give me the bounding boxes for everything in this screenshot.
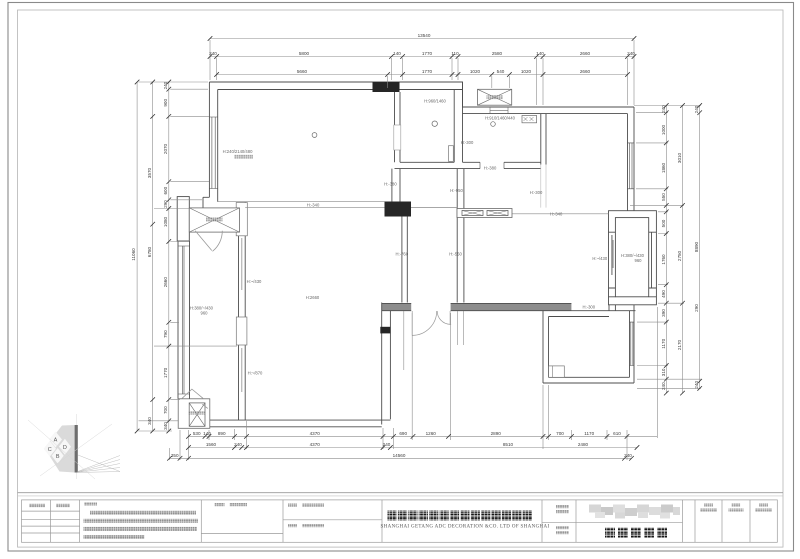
wall bottom of bathroom+kitchen (395, 162, 542, 168)
label kitchen door (484, 166, 497, 171)
dim left inner labels (163, 81, 168, 430)
svg-text:1760: 1760 (661, 254, 666, 265)
left pilaster (177, 197, 189, 241)
svg-text:2580: 2580 (492, 51, 503, 56)
platform kitchen-top label (487, 95, 504, 99)
svg-text:H:-380: H:-380 (384, 182, 397, 187)
door entrance leaf 2 (437, 311, 451, 324)
dim right mid ticks (680, 103, 685, 395)
wall top-left inner (218, 89, 463, 91)
svg-text:2660: 2660 (163, 277, 168, 288)
dim right inner ticks (664, 103, 669, 395)
svg-text:1020: 1020 (521, 69, 532, 74)
dim bottom row2 line (189, 447, 638, 449)
radiator shelf (457, 209, 512, 218)
beam line central (411, 208, 609, 214)
dim top row2 line (217, 74, 628, 76)
dim top total label (418, 33, 431, 38)
title block cells box (22, 500, 778, 542)
svg-text:H:-300: H:-300 (530, 190, 543, 195)
label kitchen-wall beam (450, 188, 463, 193)
label beam right (550, 211, 563, 216)
svg-text:6780: 6780 (147, 246, 152, 257)
dim left extension lines (139, 82, 238, 431)
svg-text:H:-340: H:-340 (307, 203, 320, 208)
label kitchen beam (461, 140, 474, 145)
wall bottom-left room bottom (210, 420, 391, 427)
svg-text:690: 690 (399, 431, 407, 436)
bay window corner blocks (609, 232, 657, 311)
svg-text:110: 110 (451, 51, 459, 56)
svg-text:240: 240 (694, 105, 699, 113)
svg-text:1170: 1170 (584, 431, 594, 436)
svg-text:H:~/870: H:~/870 (248, 371, 263, 376)
svg-text:H:910/1460/440: H:910/1460/440 (485, 116, 515, 121)
dim right extension lines (630, 106, 701, 389)
dim right mid labels (677, 152, 682, 350)
svg-text:H:-550: H:-550 (449, 251, 462, 256)
svg-text:2660: 2660 (580, 69, 591, 74)
dim right inner line (665, 106, 667, 394)
svg-text:H:240/2140/480: H:240/2140/480 (223, 149, 253, 154)
svg-text:500: 500 (661, 219, 666, 227)
dim right outer line (699, 106, 701, 389)
dim left outer ticks (135, 80, 140, 434)
svg-text:1020: 1020 (470, 69, 481, 74)
wall bottom band (entrance) filled (382, 303, 636, 310)
dim top row1 labels (209, 51, 635, 56)
dim bottom row2 ticks (186, 445, 639, 450)
svg-text:1080: 1080 (163, 216, 168, 227)
door balcony top (195, 231, 222, 252)
svg-text:4370: 4370 (310, 431, 321, 436)
svg-text:240: 240 (627, 51, 635, 56)
drawing title 原始结构图 (605, 528, 667, 539)
beam pair left room top (218, 202, 385, 208)
dim bottom row1 labels (193, 431, 621, 436)
dim bottom row3 ticks (167, 456, 634, 461)
dim bottom row3 labels (171, 453, 632, 458)
wall top-right inner (463, 113, 628, 115)
svg-text:1770: 1770 (422, 51, 433, 56)
label bay left (592, 256, 607, 261)
svg-text:600: 600 (163, 186, 168, 194)
bathroom left wall door opening (394, 125, 401, 150)
label balcony (190, 306, 214, 316)
circle bathroom (432, 121, 437, 126)
svg-text:390: 390 (661, 309, 666, 317)
svg-text:240: 240 (163, 81, 168, 89)
svg-text:490: 490 (661, 290, 666, 298)
platform kitchen-top (478, 89, 512, 105)
dim left mid ticks (150, 80, 155, 434)
dim top row1 ticks (208, 54, 637, 59)
balcony right wall glazing (241, 238, 243, 392)
svg-text:610: 610 (613, 431, 621, 436)
project label cell (556, 505, 569, 534)
svg-text:8890: 8890 (694, 241, 699, 252)
label left room wall lower (248, 371, 263, 376)
wall kitchen right / bedroom1 left (541, 114, 546, 208)
label above C2 (384, 182, 397, 187)
wall bottom-left room right (382, 303, 391, 425)
dim top row2 labels (297, 69, 591, 74)
svg-text:2660: 2660 (580, 51, 591, 56)
svg-text:1770: 1770 (422, 69, 433, 74)
svg-text:5660: 5660 (297, 69, 308, 74)
bay window glazing bars (612, 235, 613, 275)
wall above top platform (203, 197, 238, 208)
dim right outer labels (694, 105, 699, 388)
bathroom sink (449, 146, 454, 162)
label corridor right (449, 251, 462, 256)
svg-text:1770: 1770 (163, 367, 168, 378)
dim left inner ticks (167, 80, 172, 434)
wall top-left outer (209, 82, 634, 107)
dim top total line (210, 38, 634, 40)
logo bar (75, 425, 78, 473)
label left room wall upper (247, 279, 262, 284)
svg-text:1260: 1260 (426, 431, 437, 436)
corridor wall left (402, 217, 407, 303)
wall balcony left (window wall) (178, 241, 190, 399)
svg-text:240: 240 (661, 105, 666, 113)
label bedroom1 door (530, 190, 543, 195)
company english (381, 525, 550, 530)
label kitchen window (485, 116, 515, 121)
platform bottom-left (178, 399, 210, 429)
svg-text:13540: 13540 (418, 33, 431, 38)
svg-text:A: A (54, 438, 58, 444)
dim top row1 line (210, 56, 634, 58)
svg-text:140: 140 (536, 51, 544, 56)
svg-text:1560: 1560 (206, 442, 217, 447)
svg-text:890: 890 (218, 431, 226, 436)
label bay window (621, 253, 645, 263)
svg-text:2750: 2750 (677, 250, 682, 261)
svg-text:5800: 5800 (299, 51, 310, 56)
svg-text:960: 960 (201, 311, 209, 316)
dim bottom row2 labels (206, 442, 589, 447)
label top-left room H (223, 149, 253, 154)
label beam left (307, 203, 320, 208)
wall bathroom left (392, 92, 400, 202)
dim left inner line (168, 82, 170, 431)
svg-text:H:-760: H:-760 (396, 251, 409, 256)
circle kitchen (491, 122, 496, 127)
wall bathroom right / kitchen left (454, 82, 462, 162)
title mid cell texts (288, 504, 324, 528)
svg-text:3010: 3010 (677, 152, 682, 163)
svg-text:SHANGHAI GETANG ADC DECORATION: SHANGHAI GETANG ADC DECORATION &CO. LTD … (381, 525, 550, 530)
column C3 bottom-left (380, 327, 390, 334)
svg-text:240: 240 (383, 442, 391, 447)
svg-text:2170: 2170 (677, 339, 682, 350)
svg-text:240: 240 (209, 51, 217, 56)
bay window outer (609, 211, 657, 305)
title block top rules (18, 493, 784, 496)
svg-text:H:-950: H:-950 (450, 188, 463, 193)
svg-text:790: 790 (163, 330, 168, 338)
logo diamond (44, 425, 75, 473)
company name (388, 511, 532, 521)
svg-text:H:-300: H:-300 (461, 140, 474, 145)
bottom-right room walls (543, 311, 634, 383)
svg-text:550: 550 (661, 193, 666, 201)
svg-text:H:-380: H:-380 (484, 166, 497, 171)
svg-text:140: 140 (203, 431, 211, 436)
svg-text:H:-340: H:-340 (550, 211, 563, 216)
logo fan lines (28, 414, 120, 479)
dim bottom row1 line (189, 435, 658, 437)
svg-text:240: 240 (661, 382, 666, 390)
wall left of top-left room (209, 82, 217, 202)
svg-text:H:960/1460: H:960/1460 (424, 99, 446, 104)
svg-text:4370: 4370 (310, 442, 321, 447)
svg-text:240: 240 (694, 381, 699, 389)
svg-text:530: 530 (193, 431, 201, 436)
svg-text:14560: 14560 (393, 453, 406, 458)
wall right side (628, 107, 635, 211)
title notes header (84, 502, 97, 505)
svg-text:1860: 1860 (661, 162, 666, 173)
svg-text:2480: 2480 (578, 442, 589, 447)
platform top-left label (206, 218, 223, 222)
dim left outer label (131, 248, 136, 261)
svg-text:290: 290 (163, 200, 168, 208)
label corridor left (396, 251, 409, 256)
dim bottom row3 line (170, 457, 632, 459)
title block left table rows (22, 511, 683, 533)
bay window inner (615, 218, 648, 297)
kitchen top window glazing (490, 107, 508, 114)
platform top-left (189, 208, 239, 232)
dim right inner labels (661, 105, 666, 390)
wall right side lower (bottom-right room) (630, 305, 635, 383)
svg-text:350: 350 (171, 453, 179, 458)
bottom-right room fixture (549, 366, 565, 377)
platform bottom-left label (189, 411, 205, 415)
svg-text:240: 240 (234, 442, 242, 447)
kitchen stove (522, 116, 537, 123)
svg-text:1170: 1170 (661, 338, 666, 348)
dim right outer ticks (697, 103, 702, 391)
svg-text:B: B (56, 454, 60, 460)
svg-text:C: C (48, 447, 52, 453)
dim bottom row1 ticks (186, 434, 629, 439)
dim right mid line (682, 106, 684, 394)
svg-text:8510: 8510 (503, 442, 514, 447)
svg-text:H:2660: H:2660 (306, 295, 320, 300)
label top-left room cjk (235, 155, 254, 159)
wall balcony right (239, 202, 246, 420)
svg-text:3570: 3570 (147, 167, 152, 178)
svg-text:900: 900 (163, 99, 168, 107)
svg-text:960: 960 (635, 258, 643, 263)
dim top row2 ticks (214, 72, 630, 77)
svg-text:D: D (63, 445, 67, 451)
title cell4 texts (215, 503, 248, 506)
column C2 middle (385, 202, 412, 217)
project name mosaic (589, 505, 680, 519)
balcony right wall window rect (236, 317, 247, 345)
svg-text:11060: 11060 (131, 248, 136, 261)
svg-text:340: 340 (147, 417, 152, 425)
door entrance leaf 1 (412, 311, 437, 335)
svg-text:140: 140 (393, 51, 401, 56)
svg-text:1000: 1000 (661, 124, 666, 135)
column C1 top (373, 82, 400, 92)
svg-text:H:~/430: H:~/430 (247, 279, 262, 284)
svg-text:700: 700 (556, 431, 564, 436)
door bottom platform (182, 389, 208, 408)
dim top extension lines (210, 40, 634, 105)
svg-text:2070: 2070 (163, 143, 168, 154)
dim top total ticks (208, 36, 637, 41)
dim left mid line (152, 82, 154, 431)
corridor wall right (457, 169, 464, 303)
circle top-left room (312, 133, 317, 138)
title block verticals (51, 500, 750, 542)
svg-text:310: 310 (661, 368, 666, 376)
svg-text:H:~/430: H:~/430 (592, 256, 607, 261)
label left room H2660 (306, 295, 320, 300)
svg-text:540: 540 (497, 69, 505, 74)
svg-text:H:-300: H:-300 (583, 304, 596, 309)
dim bottom extension lines (170, 307, 658, 460)
svg-text:340: 340 (163, 422, 168, 430)
dim left mid labels (147, 167, 152, 424)
svg-text:700: 700 (163, 406, 168, 414)
dim left outer line (136, 82, 138, 431)
svg-text:2890: 2890 (491, 431, 502, 436)
svg-text:290: 290 (694, 304, 699, 312)
svg-text:240: 240 (624, 453, 632, 458)
right cells texts (700, 504, 772, 512)
label entry opening (583, 304, 596, 309)
title left table header (29, 504, 70, 507)
label bathroom (424, 99, 446, 104)
title notes lines (84, 511, 199, 539)
balcony right wall window rect upper (236, 203, 247, 236)
